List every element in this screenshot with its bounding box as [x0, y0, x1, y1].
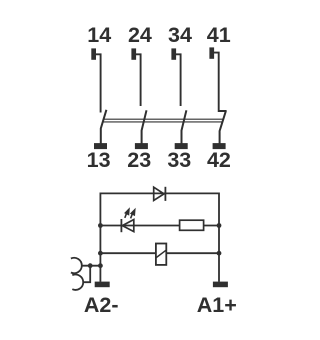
svg-text:33: 33 — [167, 148, 191, 172]
svg-text:14: 14 — [87, 23, 111, 47]
svg-text:23: 23 — [127, 148, 151, 172]
svg-text:A2-: A2- — [84, 293, 119, 317]
svg-text:34: 34 — [168, 23, 192, 47]
svg-text:13: 13 — [87, 148, 111, 172]
svg-text:41: 41 — [207, 23, 231, 47]
svg-text:24: 24 — [128, 23, 152, 47]
svg-text:42: 42 — [207, 148, 231, 172]
svg-text:A1+: A1+ — [197, 293, 237, 317]
